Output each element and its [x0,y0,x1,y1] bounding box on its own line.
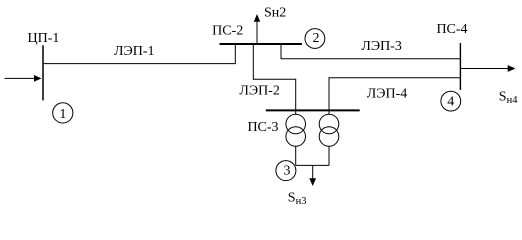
load arrow Sн4 [461,68,509,70]
svg-text:3: 3 [284,163,291,178]
svg-text:ЛЭП-4: ЛЭП-4 [367,86,408,101]
svg-text:1: 1 [59,107,66,122]
wire joining transformer secondaries [296,164,329,166]
node 3 circle [276,161,296,181]
svg-text:4: 4 [447,94,454,109]
svg-text:ПС-3: ПС-3 [247,120,278,135]
source bus ЦП-1 [42,45,44,100]
load arrow Sн3 [312,165,314,178]
svg-text:ЛЭП-1: ЛЭП-1 [114,44,155,59]
svg-text:ПС-2: ПС-2 [212,24,243,39]
load arrow Sн2 [256,21,258,44]
node 1 circle [53,103,73,123]
source feed arrow into ЦП-1 [5,77,36,79]
svg-text:ЦП-1: ЦП-1 [28,31,60,46]
node 4 circle [441,91,461,111]
bus ПС-3 [266,109,360,111]
svg-text:Sн4: Sн4 [499,90,518,107]
line ЛЭП-3 wire [281,45,460,59]
line ЛЭП-4 wire [329,78,460,110]
svg-text:Sн3: Sн3 [288,191,307,208]
svg-text:ПС-4: ПС-4 [436,22,467,37]
svg-text:ЛЭП-3: ЛЭП-3 [361,39,402,54]
node 2 circle [305,29,325,49]
svg-text:ЛЭП-2: ЛЭП-2 [239,84,280,99]
svg-text:Sн2: Sн2 [264,5,286,20]
bus ПС-4 [459,43,461,90]
line ЛЭП-2 wire [253,45,295,110]
svg-text:2: 2 [313,31,320,46]
bus ПС-2 [220,43,302,45]
line ЛЭП-1 wire [44,45,236,64]
transformer T2 at ПС-3 [328,110,330,114]
transformer T1 at ПС-3 [295,110,297,114]
